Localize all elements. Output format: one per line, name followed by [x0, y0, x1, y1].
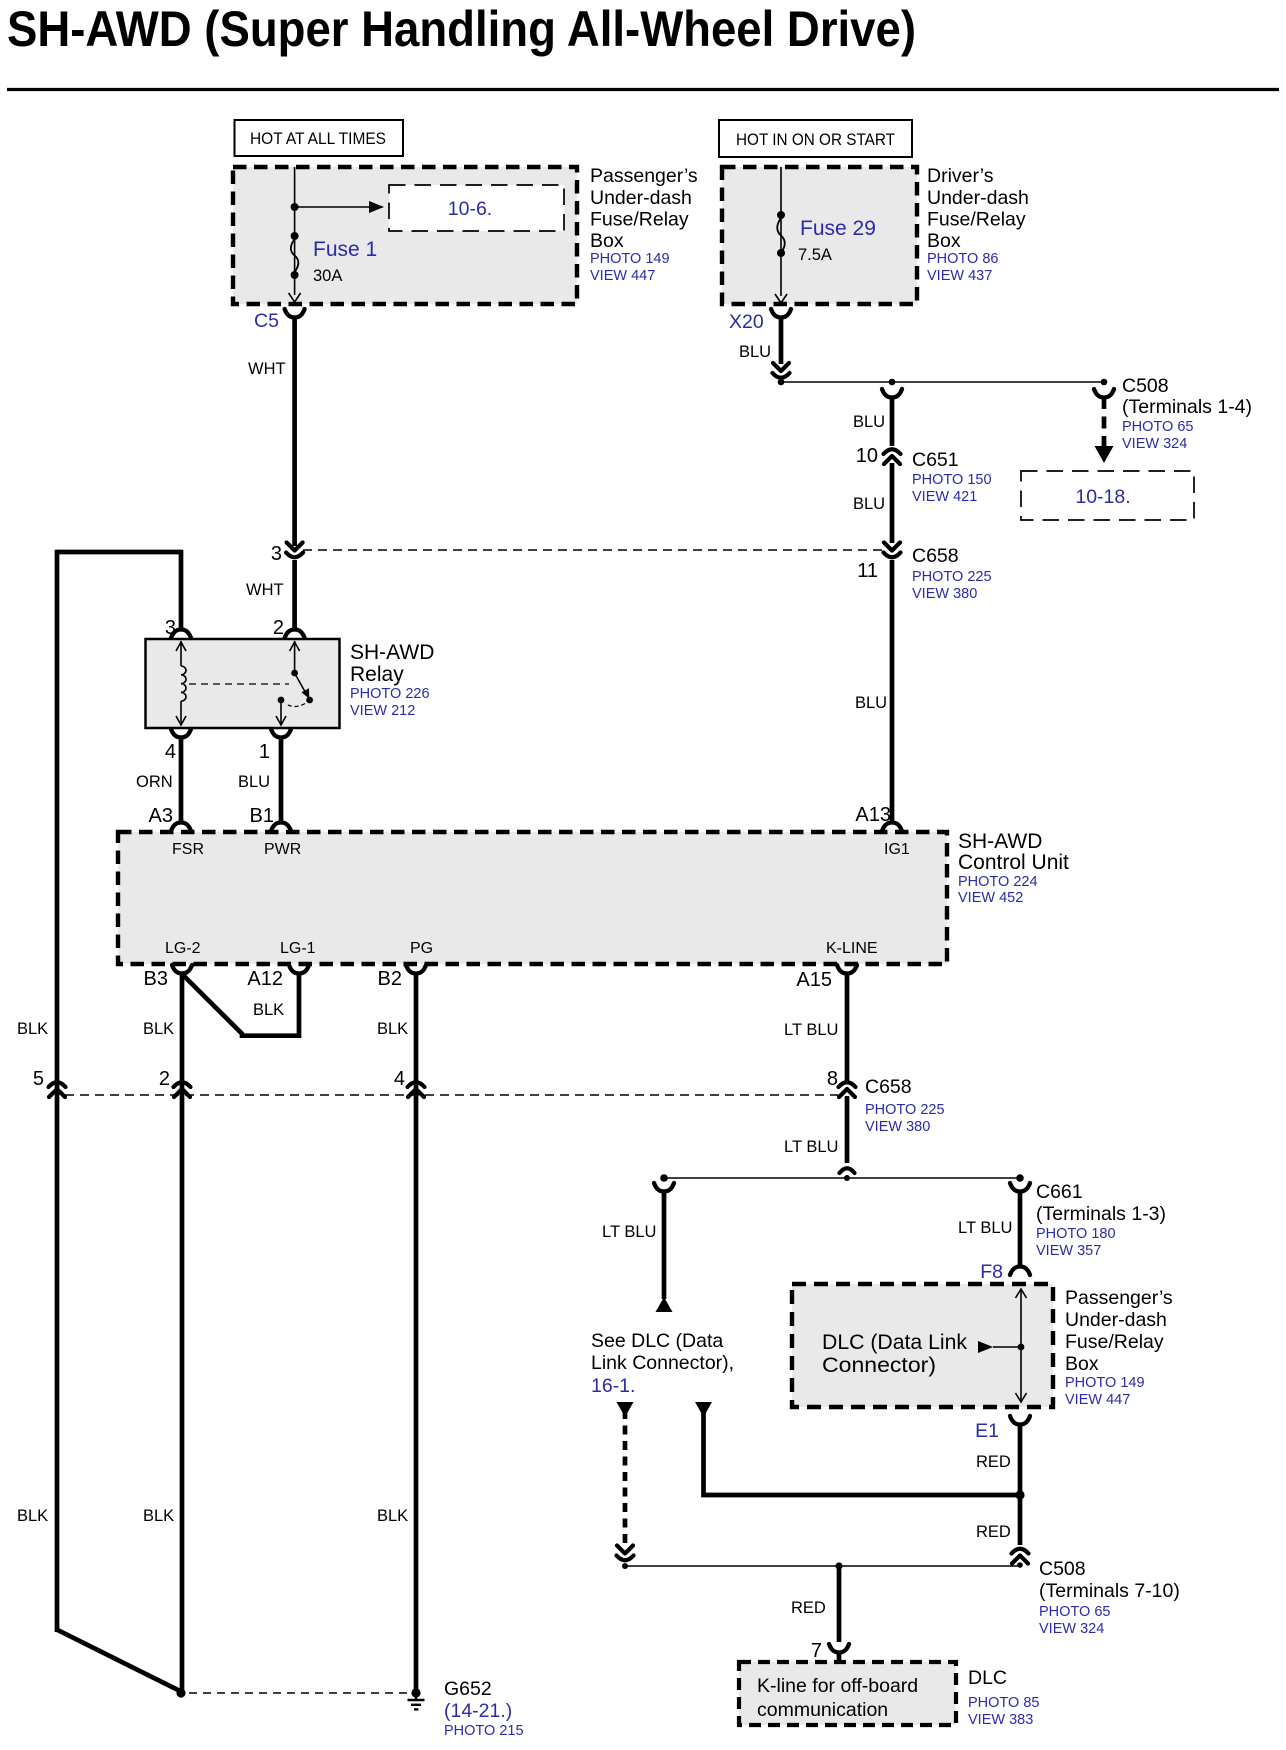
wire BLK B2 to ground [414, 972, 419, 1693]
svg-text:Under-dash: Under-dash [590, 187, 692, 209]
svg-text:PHOTO 149: PHOTO 149 [590, 251, 670, 267]
svg-text:K-line for off-board: K-line for off-board [757, 1675, 918, 1697]
component name C508 (Terminals 7-10) [1039, 1558, 1180, 1637]
svg-text:PG: PG [410, 940, 433, 957]
svg-text:PHOTO 224: PHOTO 224 [958, 874, 1038, 890]
relay K1 box [146, 639, 340, 728]
svg-text:VIEW 447: VIEW 447 [590, 268, 655, 284]
svg-text:communication: communication [757, 1699, 888, 1721]
wire RED E1 down [976, 1423, 1020, 1493]
svg-text:16-1.: 16-1. [591, 1375, 635, 1397]
connector E1 [975, 1416, 1030, 1442]
component name C658 (upper) [912, 545, 992, 602]
svg-text:B3: B3 [144, 968, 168, 990]
wire BLU to C651 [853, 396, 892, 446]
K-line DLC box [739, 1662, 956, 1725]
svg-text:(Terminals 1-3): (Terminals 1-3) [1036, 1203, 1166, 1225]
wire BLK B3 to ground [180, 972, 185, 1693]
label K-line for off-board communication [757, 1675, 918, 1721]
connector: left drop cup [654, 1183, 674, 1192]
node: junction right end [1016, 1174, 1024, 1182]
svg-text:A15: A15 [796, 969, 832, 991]
svg-text:1: 1 [259, 741, 270, 763]
wire LT BLU C661 [958, 1190, 1020, 1266]
connector 5 (inline) [33, 1068, 66, 1097]
label box HOT IN ON OR START [719, 120, 912, 157]
wire: fuse box internal feed (right) [775, 167, 787, 303]
svg-text:5: 5 [33, 1068, 44, 1090]
svg-text:VIEW 383: VIEW 383 [968, 1712, 1033, 1728]
svg-text:PHOTO 85: PHOTO 85 [968, 1695, 1039, 1711]
svg-text:3: 3 [271, 543, 282, 565]
node: junction left end [660, 1174, 668, 1182]
component name SH-AWD Relay [350, 641, 434, 719]
wire: horizontal BLU branch [781, 381, 1104, 383]
node: fuse F1 bottom terminal [291, 271, 299, 279]
dashed harness line at connectors 5-2-4-8 [65, 1094, 838, 1096]
wire label WHT (lower) [246, 581, 284, 599]
value label 7.5A [798, 246, 832, 264]
connector 2 (inline) [159, 1068, 191, 1097]
wire: horizontal thin link [625, 1565, 1020, 1567]
wire: horizontal K-line junction [664, 1177, 1020, 1179]
svg-text:11: 11 [857, 560, 878, 582]
relay pin 2 connector [273, 617, 305, 639]
DLC internal pointer [978, 1341, 1024, 1353]
wire stub 7 to K-line box [837, 1651, 842, 1662]
svg-text:See DLC (Data: See DLC (Data [591, 1330, 723, 1352]
svg-text:BLU: BLU [853, 495, 885, 513]
svg-text:BLU: BLU [739, 343, 771, 361]
svg-text:PHOTO 180: PHOTO 180 [1036, 1226, 1116, 1242]
svg-text:K-LINE: K-LINE [826, 940, 878, 957]
connector: K-line wire end at junction [840, 1168, 855, 1173]
reference box 10-18 [1021, 471, 1194, 520]
component name C651 [912, 449, 992, 505]
svg-text:3: 3 [165, 617, 176, 639]
control unit bottom pin names [165, 940, 878, 957]
node: junction at A15 wire [844, 1175, 850, 1181]
svg-text:4: 4 [394, 1068, 405, 1090]
svg-text:Fuse/Relay: Fuse/Relay [590, 209, 689, 231]
svg-text:PWR: PWR [264, 841, 301, 858]
wire label BLK (A12) [253, 1001, 284, 1019]
component name C661 [1036, 1181, 1166, 1259]
wire labels BLK (B2 column) [377, 1020, 408, 1525]
svg-text:BLK: BLK [143, 1020, 174, 1038]
svg-text:PHOTO 65: PHOTO 65 [1122, 419, 1193, 435]
node: RED drop junction [835, 1562, 842, 1569]
svg-text:Control Unit: Control Unit [958, 851, 1069, 874]
svg-text:C661: C661 [1036, 1181, 1083, 1203]
fuse box: Passenger's Under-dash Fuse/Relay Box [233, 167, 577, 304]
svg-text:C508: C508 [1039, 1558, 1086, 1580]
connector: X20 wire to junction [773, 363, 790, 378]
svg-text:C658: C658 [865, 1076, 912, 1098]
svg-text:A3: A3 [149, 805, 173, 827]
svg-text:10-6.: 10-6. [448, 198, 492, 220]
svg-text:RED: RED [976, 1523, 1011, 1541]
connector C508 (terminals 7-10) [1012, 1549, 1029, 1564]
svg-text:WHT: WHT [246, 581, 284, 599]
wire BLU C651 to C658 [853, 463, 892, 543]
svg-text:LT BLU: LT BLU [784, 1138, 838, 1156]
svg-text:A12: A12 [247, 968, 283, 990]
connector F8 [980, 1261, 1030, 1283]
svg-text:VIEW 452: VIEW 452 [958, 890, 1023, 906]
value label Fuse 1 [313, 238, 377, 261]
relay pin 3 connector [165, 617, 191, 639]
reference box 10-6 [389, 185, 564, 231]
wire labels BLK (B3 column) [143, 1020, 174, 1525]
svg-text:Fuse/Relay: Fuse/Relay [927, 209, 1026, 231]
node: RED junction [1015, 1490, 1024, 1499]
svg-text:C5: C5 [254, 310, 279, 332]
svg-text:(14-21.): (14-21.) [444, 1700, 512, 1722]
control unit pin A13 [855, 804, 902, 831]
component name C508 (Terminals 1-4) [1122, 375, 1252, 452]
svg-text:30A: 30A [313, 267, 342, 285]
component name: Driver's Under-dash Fuse/Relay Box [927, 165, 1029, 284]
svg-text:X20: X20 [729, 311, 764, 333]
svg-text:Box: Box [927, 230, 961, 252]
svg-text:WHT: WHT [248, 360, 286, 378]
wire: dashed drop to 10-18 [1095, 397, 1114, 463]
svg-text:RED: RED [791, 1599, 826, 1617]
fuse F1 element [291, 239, 299, 272]
svg-text:B2: B2 [378, 968, 402, 990]
svg-text:2: 2 [273, 617, 284, 639]
svg-text:VIEW 357: VIEW 357 [1036, 1243, 1101, 1259]
wire: dashed K-line from DLC [623, 1410, 628, 1546]
svg-text:PHOTO 86: PHOTO 86 [927, 251, 998, 267]
svg-text:Relay: Relay [350, 663, 404, 686]
svg-text:C508: C508 [1122, 375, 1169, 397]
svg-text:Connector): Connector) [822, 1354, 936, 1377]
control unit U1 box [118, 832, 947, 964]
svg-text:VIEW 324: VIEW 324 [1122, 436, 1187, 452]
svg-text:Box: Box [590, 230, 624, 252]
label DLC (Data Link Connector) [822, 1331, 967, 1377]
component name C658 (lower) [865, 1076, 945, 1135]
wire: K-line jog to RED junction [704, 1411, 1019, 1495]
svg-text:B1: B1 [250, 805, 274, 827]
control unit pin A15 [796, 965, 857, 991]
node: fuse F29 bottom terminal [777, 249, 785, 257]
svg-text:Fuse 29: Fuse 29 [800, 217, 876, 240]
connector X20 [729, 309, 791, 333]
relay coil [176, 641, 186, 725]
svg-text:HOT AT ALL TIMES: HOT AT ALL TIMES [250, 130, 386, 148]
svg-text:8: 8 [827, 1068, 838, 1090]
node: ground junction right [411, 1688, 420, 1697]
svg-text:IG1: IG1 [884, 841, 910, 858]
svg-text:BLK: BLK [143, 1507, 174, 1525]
svg-text:E1: E1 [975, 1420, 999, 1442]
connector 7 (DLC) [811, 1640, 849, 1662]
title underline rule [7, 88, 1279, 91]
node A: BLU branch junction [778, 379, 785, 386]
svg-text:BLK: BLK [377, 1020, 408, 1038]
svg-text:7.5A: 7.5A [798, 246, 832, 264]
value label Fuse 29 [800, 217, 876, 240]
connector: C661 drop cup [1010, 1183, 1030, 1192]
node: thin line right end [1017, 1562, 1023, 1568]
wire: feeder drop to relay pin 3 [179, 550, 184, 630]
svg-text:Driver’s: Driver’s [927, 165, 994, 187]
wire RED to DLC [791, 1566, 839, 1642]
svg-text:PHOTO 149: PHOTO 149 [1065, 1375, 1145, 1391]
control unit top pin names [172, 841, 910, 858]
node: fuse F1 top terminal [291, 232, 299, 240]
svg-text:A13: A13 [855, 804, 891, 826]
connector C658 pin 11 [857, 543, 900, 583]
svg-text:Passenger’s: Passenger’s [590, 165, 698, 187]
svg-text:10-18.: 10-18. [1075, 486, 1130, 508]
svg-text:(Terminals 1-4): (Terminals 1-4) [1122, 396, 1252, 418]
DLC internal double arrow [1016, 1289, 1027, 1402]
svg-text:10: 10 [856, 445, 878, 467]
wire BLK labels left feeder [17, 1020, 48, 1525]
connector 4 (inline) [394, 1068, 425, 1097]
relay pin 1 connector [259, 729, 291, 763]
svg-text:VIEW 212: VIEW 212 [350, 703, 415, 719]
svg-text:PHOTO 150: PHOTO 150 [912, 472, 992, 488]
wire WHT connector3 to relay pin 2 [292, 560, 297, 630]
control unit pin B2 [378, 965, 426, 990]
svg-text:PHOTO 225: PHOTO 225 [865, 1102, 945, 1118]
connector C5 [254, 309, 305, 332]
title: SH-AWD (Super Handling All-Wheel Drive) [7, 1, 916, 57]
control unit pin B3 [144, 965, 192, 990]
svg-text:Under-dash: Under-dash [927, 187, 1029, 209]
connector: branch drop cup [882, 389, 902, 398]
node: C508 branch terminal [1101, 379, 1108, 386]
wire BLK left feeder (top corner) [57, 550, 181, 1632]
svg-text:LT BLU: LT BLU [602, 1223, 656, 1241]
connector 3 (inline on WHT wire) [271, 543, 303, 566]
svg-text:2: 2 [159, 1068, 170, 1090]
note See DLC [591, 1330, 734, 1397]
svg-text:VIEW 380: VIEW 380 [865, 1119, 930, 1135]
wire: fuse box internal feed [289, 167, 301, 302]
off-page arrow up (See DLC) [656, 1297, 673, 1312]
svg-text:Passenger’s: Passenger’s [1065, 1287, 1173, 1309]
ground name G652 [444, 1678, 524, 1739]
svg-text:Link Connector),: Link Connector), [591, 1352, 734, 1374]
svg-text:VIEW 421: VIEW 421 [912, 489, 977, 505]
svg-text:ORN: ORN [136, 773, 173, 791]
relay switch [276, 641, 313, 725]
svg-text:LG-2: LG-2 [165, 940, 201, 957]
svg-text:FSR: FSR [172, 841, 204, 858]
svg-text:Under-dash: Under-dash [1065, 1309, 1167, 1331]
svg-text:G652: G652 [444, 1678, 492, 1700]
svg-text:BLU: BLU [855, 694, 887, 712]
wire LT BLU to DLC off-page [602, 1190, 664, 1299]
svg-text:PHOTO 225: PHOTO 225 [912, 569, 992, 585]
svg-text:RED: RED [976, 1453, 1011, 1471]
control unit pin A3 [149, 805, 191, 831]
dashed harness line to C658 [303, 549, 884, 551]
connector C508 (terminals 1-4) drop [1094, 389, 1114, 398]
wire ORN relay pin4 to A3 [136, 737, 181, 823]
node: BLU drop to C651 [889, 379, 896, 386]
svg-text:VIEW 447: VIEW 447 [1065, 1392, 1130, 1408]
component name: Passenger's Under-dash Fuse/Relay Box [590, 165, 698, 284]
svg-text:BLK: BLK [253, 1001, 284, 1019]
DLC fuse box: Passenger's Under-dash Fuse/Relay Box [792, 1284, 1053, 1407]
svg-text:LT BLU: LT BLU [784, 1021, 838, 1039]
svg-text:BLK: BLK [377, 1507, 408, 1525]
svg-text:HOT IN ON OR START: HOT IN ON OR START [736, 131, 895, 149]
value label 30A [313, 267, 342, 285]
dashed line between ground points [189, 1692, 408, 1694]
node: fuse F29 top terminal [777, 211, 785, 219]
svg-text:C651: C651 [912, 449, 959, 471]
component name DLC [968, 1667, 1039, 1728]
svg-text:BLU: BLU [853, 413, 885, 431]
svg-text:DLC: DLC [968, 1667, 1007, 1689]
svg-text:SH-AWD: SH-AWD [958, 830, 1042, 853]
svg-text:PHOTO 215: PHOTO 215 [444, 1723, 524, 1739]
wire BLU C658 to A13 [855, 560, 892, 823]
relay pin 4 connector [165, 729, 191, 763]
svg-text:BLK: BLK [17, 1020, 48, 1038]
off-page arrow down (left, dashed wire) [617, 1402, 634, 1417]
connector C658 pin 8 [827, 1068, 856, 1097]
node: ground junction left [176, 1688, 185, 1697]
wire WHT from C5 [248, 316, 295, 546]
svg-text:(Terminals 7-10): (Terminals 7-10) [1039, 1580, 1180, 1602]
svg-text:Box: Box [1065, 1353, 1099, 1375]
svg-text:C658: C658 [912, 545, 959, 567]
svg-text:7: 7 [811, 1640, 822, 1662]
svg-text:PHOTO 65: PHOTO 65 [1039, 1604, 1110, 1620]
svg-text:LT BLU: LT BLU [958, 1219, 1012, 1237]
wire RED junction to C508 [976, 1495, 1020, 1545]
fuse F29 element [777, 218, 785, 253]
svg-text:Fuse/Relay: Fuse/Relay [1065, 1331, 1164, 1353]
control unit pin A12 [247, 965, 309, 990]
svg-text:F8: F8 [980, 1261, 1003, 1283]
svg-text:PHOTO 226: PHOTO 226 [350, 686, 430, 702]
node: feed junction [291, 203, 299, 211]
svg-text:SH-AWD (Super Handling All-Whe: SH-AWD (Super Handling All-Wheel Drive) [7, 1, 916, 57]
wire LT BLU C658 to junction [784, 1096, 847, 1163]
svg-text:DLC (Data Link: DLC (Data Link [822, 1331, 967, 1354]
off-page arrow down (right) [695, 1402, 712, 1417]
relay internal dashed link [189, 683, 289, 685]
svg-text:Fuse 1: Fuse 1 [313, 238, 377, 261]
control unit pin B1 [250, 805, 291, 831]
svg-text:4: 4 [165, 741, 176, 763]
svg-text:SH-AWD: SH-AWD [350, 641, 434, 664]
connector: dashed wire end [617, 1546, 634, 1561]
wire BLK jog A12 to B3 [184, 972, 299, 1036]
svg-text:VIEW 324: VIEW 324 [1039, 1621, 1104, 1637]
wire LT BLU A15 to C658 [784, 972, 847, 1081]
svg-text:BLU: BLU [238, 773, 270, 791]
wire BLU from X20 [739, 316, 781, 364]
svg-text:BLK: BLK [17, 1507, 48, 1525]
svg-text:LG-1: LG-1 [280, 940, 316, 957]
svg-text:VIEW 437: VIEW 437 [927, 268, 992, 284]
component name: Passenger's box (DLC) [1065, 1287, 1173, 1408]
node: thin line left end [622, 1563, 628, 1569]
label box HOT AT ALL TIMES [235, 120, 404, 156]
wire BLU relay pin1 to B1 [238, 737, 281, 823]
component name SH-AWD Control Unit [958, 830, 1069, 906]
connector C651 pin 10 [856, 445, 901, 467]
wire: left feeder diagonal to ground [57, 1630, 180, 1691]
fuse box: Driver's Under-dash Fuse/Relay Box [722, 167, 917, 304]
ground symbol G652 [408, 1693, 425, 1709]
svg-text:VIEW 380: VIEW 380 [912, 586, 977, 602]
wire: branch arrow to 10-6 [295, 201, 384, 213]
